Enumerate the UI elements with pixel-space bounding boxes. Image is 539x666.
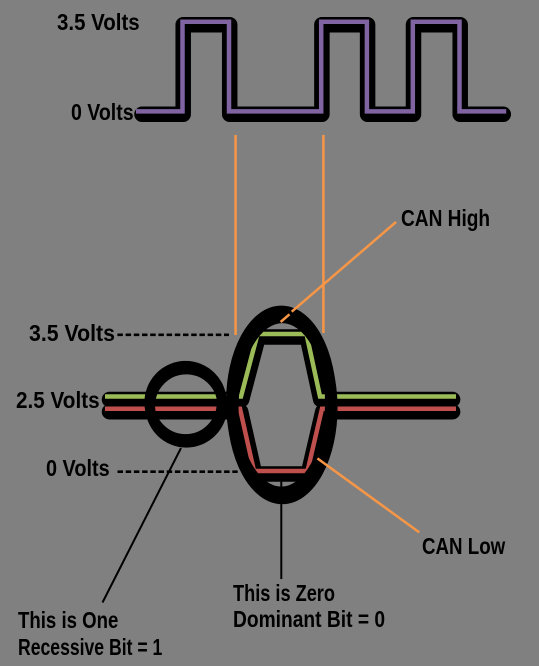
label 3.5 Volts (middle) — [29, 322, 115, 345]
black leader to This is Zero — [280, 477, 282, 579]
label This is One — [18, 609, 118, 632]
dashed line 3.5 volt level — [117, 333, 229, 336]
CAN Low black shadow — [110, 412, 453, 474]
square wave purple line — [136, 22, 506, 112]
orange leader to CAN High — [292, 222, 396, 312]
dashed line 0 volt level — [118, 470, 238, 473]
orange vertical line right — [322, 135, 325, 333]
label CAN High — [401, 207, 490, 230]
square wave black shadow — [142, 25, 503, 115]
orange vertical line left — [234, 135, 237, 335]
black leader to This is One — [103, 448, 182, 603]
label Dominant Bit = 0 — [233, 608, 385, 631]
small ellipse recessive bit — [149, 366, 221, 439]
big ellipse dominant bit — [232, 311, 331, 492]
CAN High green line — [105, 334, 456, 397]
label 0 Volts (top) — [71, 101, 134, 124]
label 2.5 Volts — [16, 389, 100, 412]
CAN High black shadow — [110, 337, 453, 400]
label 3.5 Volts (top) — [57, 11, 140, 34]
orange leader tip segment — [281, 314, 290, 322]
small ellipse shadow — [150, 369, 222, 442]
label This is Zero — [233, 582, 335, 605]
big ellipse shadow — [233, 317, 332, 498]
label 0 Volts (middle) — [46, 457, 110, 480]
orange leader to CAN Low — [317, 458, 419, 532]
label Recessive Bit = 1 — [18, 636, 162, 659]
label CAN Low — [422, 535, 505, 558]
CAN Low red line — [105, 409, 456, 471]
